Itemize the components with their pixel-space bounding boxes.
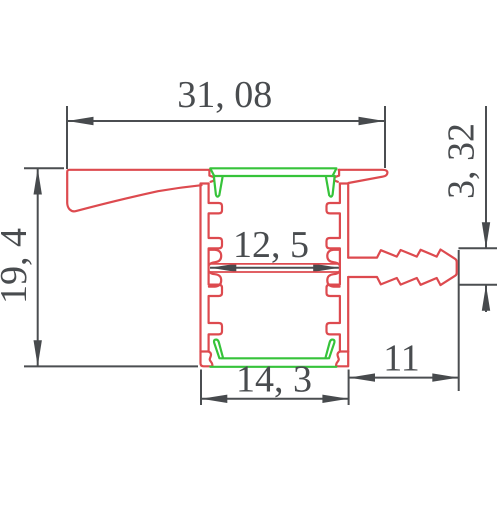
- svg-text:11: 11: [383, 337, 420, 379]
- svg-text:12, 5: 12, 5: [233, 224, 309, 266]
- svg-text:31, 08: 31, 08: [177, 74, 272, 116]
- svg-text:19, 4: 19, 4: [0, 228, 35, 304]
- svg-text:3, 32: 3, 32: [441, 123, 483, 199]
- svg-text:14, 3: 14, 3: [236, 358, 312, 400]
